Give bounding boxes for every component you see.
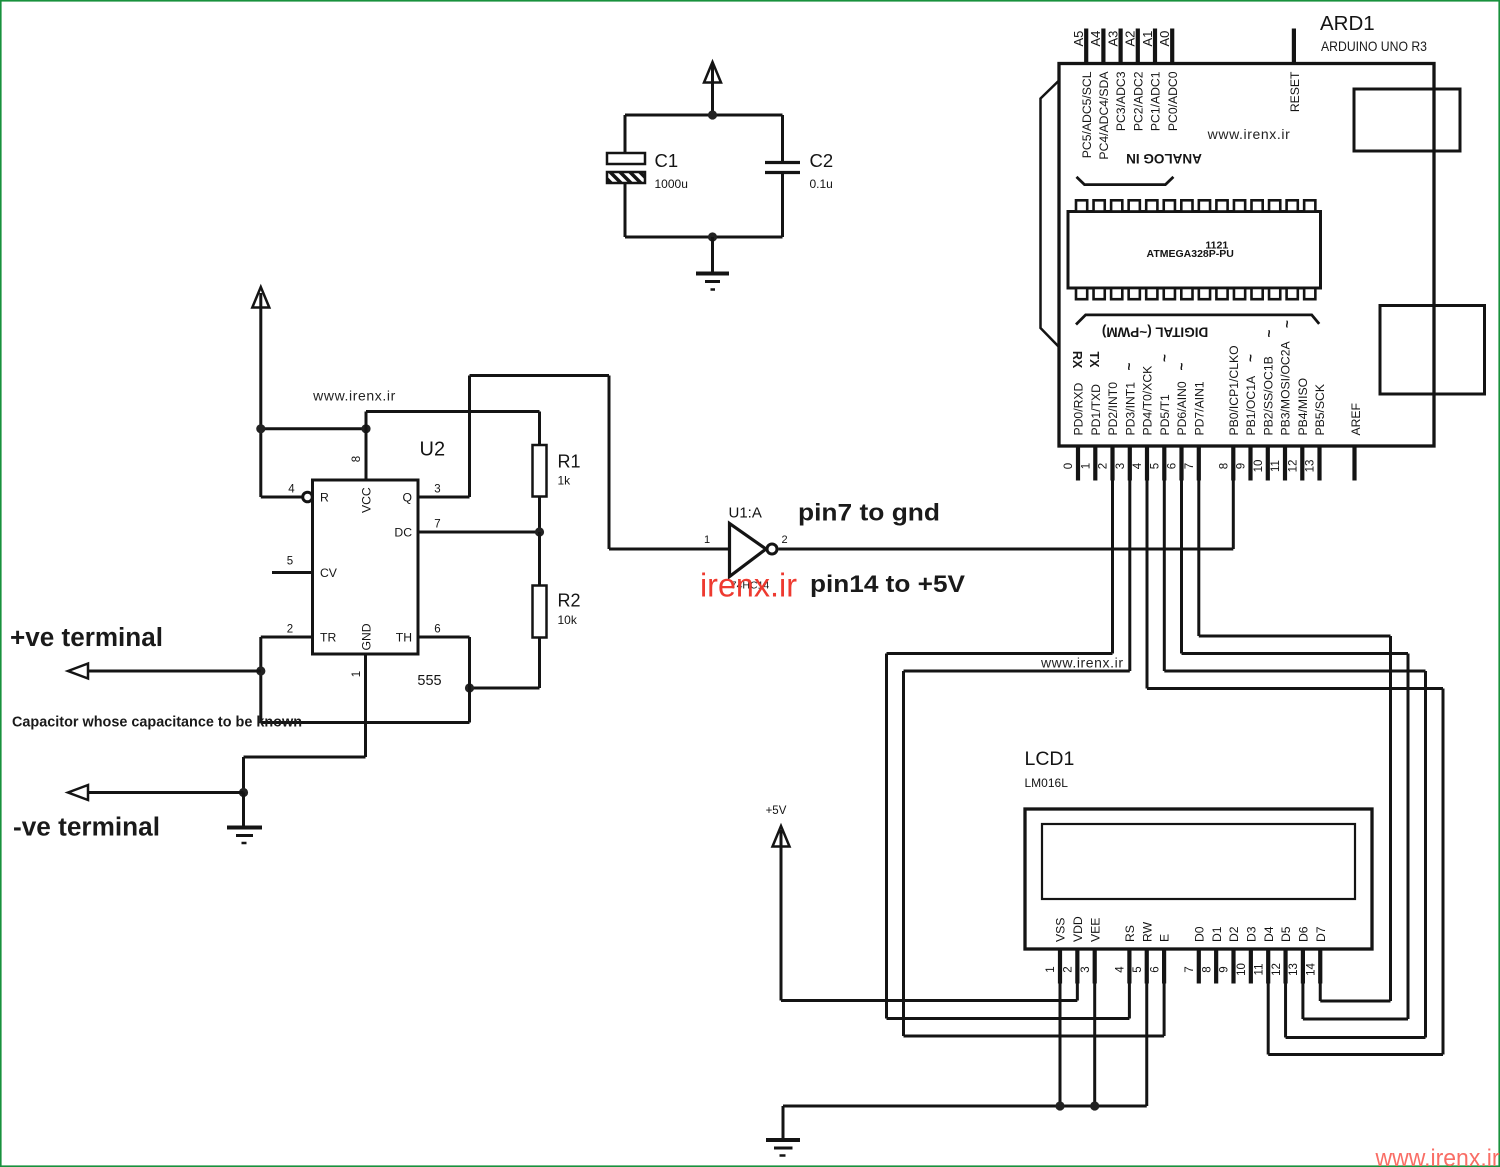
svg-text:PD2/INT0: PD2/INT0 [1106,382,1120,436]
svg-text:14: 14 [1305,963,1317,976]
svg-text:10: 10 [1253,460,1265,473]
svg-text:PB2/SS/OC1B: PB2/SS/OC1B [1261,356,1275,435]
svg-text:2: 2 [781,534,787,546]
svg-text:RESET: RESET [1288,71,1302,112]
svg-text:VEE: VEE [1088,918,1102,942]
svg-text:D3: D3 [1244,926,1258,942]
svg-text:R: R [320,491,329,505]
svg-text:5: 5 [287,556,293,568]
svg-text:www.irenx.ir: www.irenx.ir [1375,1145,1500,1167]
svg-text:13: 13 [1288,963,1300,976]
svg-text:RW: RW [1140,921,1154,942]
svg-text:1: 1 [1045,966,1057,972]
svg-text:12: 12 [1271,963,1283,976]
svg-text:CV: CV [320,566,338,580]
svg-text:PB1/OC1A: PB1/OC1A [1244,375,1258,435]
svg-text:D2: D2 [1227,926,1241,942]
svg-text:D1: D1 [1210,926,1224,942]
svg-text:A4: A4 [1088,31,1103,47]
svg-text:VSS: VSS [1054,918,1068,942]
svg-text:LM016L: LM016L [1025,776,1069,790]
svg-text:pin7 to gnd: pin7 to gnd [798,500,940,527]
svg-text:TX: TX [1087,352,1101,369]
svg-text:+5V: +5V [766,805,787,817]
svg-text:R1: R1 [558,452,581,472]
svg-text:7: 7 [434,519,440,531]
svg-text:pin14 to +5V: pin14 to +5V [810,571,966,598]
svg-text:3: 3 [1115,463,1127,469]
svg-text:www.irenx.ir: www.irenx.ir [1207,126,1291,142]
svg-text:TH: TH [396,631,412,645]
svg-text:U1:A: U1:A [729,505,762,522]
svg-text:4: 4 [1132,462,1144,469]
svg-text:3: 3 [1080,966,1092,972]
svg-text:E: E [1158,934,1172,942]
svg-text:1: 1 [1081,463,1093,469]
svg-text:8: 8 [351,456,363,462]
svg-text:11: 11 [1253,964,1265,976]
svg-text:8: 8 [1201,966,1213,972]
svg-text:9: 9 [1236,463,1248,469]
svg-text:0: 0 [1063,463,1075,469]
svg-text:PC3/ADC3: PC3/ADC3 [1114,71,1128,131]
svg-text:PC0/ADC0: PC0/ADC0 [1166,71,1180,131]
svg-text:4: 4 [288,484,295,496]
svg-text:7: 7 [1184,966,1196,972]
svg-text:555: 555 [417,673,441,689]
svg-text:TR: TR [320,631,336,645]
svg-text:PB5/SCK: PB5/SCK [1313,384,1327,435]
svg-text:7: 7 [1184,463,1196,469]
svg-text:Capacitor whose capacitance to: Capacitor whose capacitance to be known [12,715,302,731]
svg-text:AREF: AREF [1349,403,1363,436]
svg-text:~: ~ [1122,363,1137,371]
svg-text:irenx.ir: irenx.ir [700,567,797,604]
svg-text:Q: Q [403,491,412,505]
svg-text:PC4/ADC4/SDA: PC4/ADC4/SDA [1097,71,1111,160]
svg-text:1: 1 [351,671,363,677]
svg-text:1000u: 1000u [655,177,688,191]
svg-text:PD3/INT1: PD3/INT1 [1123,382,1137,436]
svg-text:6: 6 [434,624,440,636]
svg-text:VCC: VCC [359,487,373,513]
svg-text:PC5/ADC5/SCL: PC5/ADC5/SCL [1080,71,1094,158]
svg-text:PC2/ADC2: PC2/ADC2 [1131,71,1145,131]
svg-text:6: 6 [1167,463,1179,469]
svg-text:5: 5 [1150,463,1162,469]
svg-text:2: 2 [1098,463,1110,469]
svg-text:2: 2 [1063,966,1075,972]
svg-text:DC: DC [394,526,412,540]
svg-text:RS: RS [1123,925,1137,942]
svg-text:GND: GND [359,623,373,650]
svg-text:PD7/AIN1: PD7/AIN1 [1192,381,1206,435]
svg-text:1: 1 [704,534,710,546]
svg-text:ARDUINO UNO R3: ARDUINO UNO R3 [1321,38,1427,54]
svg-text:A3: A3 [1105,31,1120,47]
svg-text:8: 8 [1219,463,1231,469]
svg-text:A0: A0 [1157,31,1172,47]
svg-text:5: 5 [1132,966,1144,972]
svg-text:RX: RX [1070,351,1084,369]
svg-text:~: ~ [1280,320,1295,328]
svg-text:3: 3 [434,484,440,496]
svg-text:~: ~ [1174,363,1189,371]
svg-text:12: 12 [1288,460,1300,473]
svg-text:1k: 1k [558,474,572,488]
svg-text:ARD1: ARD1 [1320,12,1375,35]
svg-text:9: 9 [1219,966,1231,972]
svg-text:~: ~ [1243,354,1258,362]
svg-text:D7: D7 [1314,926,1328,942]
svg-text:VDD: VDD [1071,916,1085,942]
svg-text:D0: D0 [1192,926,1206,942]
svg-text:6: 6 [1149,966,1161,972]
svg-text:PB4/MISO: PB4/MISO [1296,378,1310,436]
svg-text:PD6/AIN0: PD6/AIN0 [1175,381,1189,435]
svg-text:D5: D5 [1279,926,1293,942]
svg-text:ANALOG IN: ANALOG IN [1126,151,1202,166]
svg-text:10k: 10k [558,613,578,627]
svg-text:-ve terminal: -ve terminal [13,814,160,842]
svg-text:11: 11 [1270,460,1282,472]
svg-text:A5: A5 [1071,31,1086,47]
svg-text:A1: A1 [1140,31,1155,47]
svg-text:www.irenx.ir: www.irenx.ir [312,388,396,404]
svg-text:2: 2 [287,624,293,636]
svg-text:ATMEGA328P-PU: ATMEGA328P-PU [1147,248,1234,260]
svg-text:10: 10 [1236,963,1248,976]
svg-text:U2: U2 [420,439,446,461]
svg-text:~: ~ [1157,354,1172,362]
svg-text:LCD1: LCD1 [1025,748,1075,770]
svg-text:0.1u: 0.1u [810,177,833,191]
svg-text:C1: C1 [655,150,679,171]
svg-text:www.irenx.ir: www.irenx.ir [1040,655,1124,671]
svg-text:PD1/TXD: PD1/TXD [1089,384,1103,436]
svg-text:PB3/MOSI/OC2A: PB3/MOSI/OC2A [1279,340,1293,435]
svg-text:D4: D4 [1262,926,1276,942]
svg-text:PD4/T0/XCK: PD4/T0/XCK [1141,366,1155,436]
svg-text:PC1/ADC1: PC1/ADC1 [1149,71,1163,131]
svg-text:PB0/ICP1/CLKO: PB0/ICP1/CLKO [1227,345,1241,435]
svg-text:PD0/RXD: PD0/RXD [1072,382,1086,435]
svg-text:+ve terminal: +ve terminal [10,624,163,652]
svg-text:~: ~ [1261,330,1276,338]
svg-text:PD5/T1: PD5/T1 [1158,394,1172,436]
svg-text:C2: C2 [810,150,834,171]
svg-text:R2: R2 [558,591,581,611]
svg-text:13: 13 [1305,460,1317,473]
svg-text:A2: A2 [1123,31,1138,47]
svg-text:D6: D6 [1297,926,1311,942]
svg-text:DIGITAL (~PWM): DIGITAL (~PWM) [1102,325,1208,340]
svg-text:4: 4 [1115,966,1127,973]
